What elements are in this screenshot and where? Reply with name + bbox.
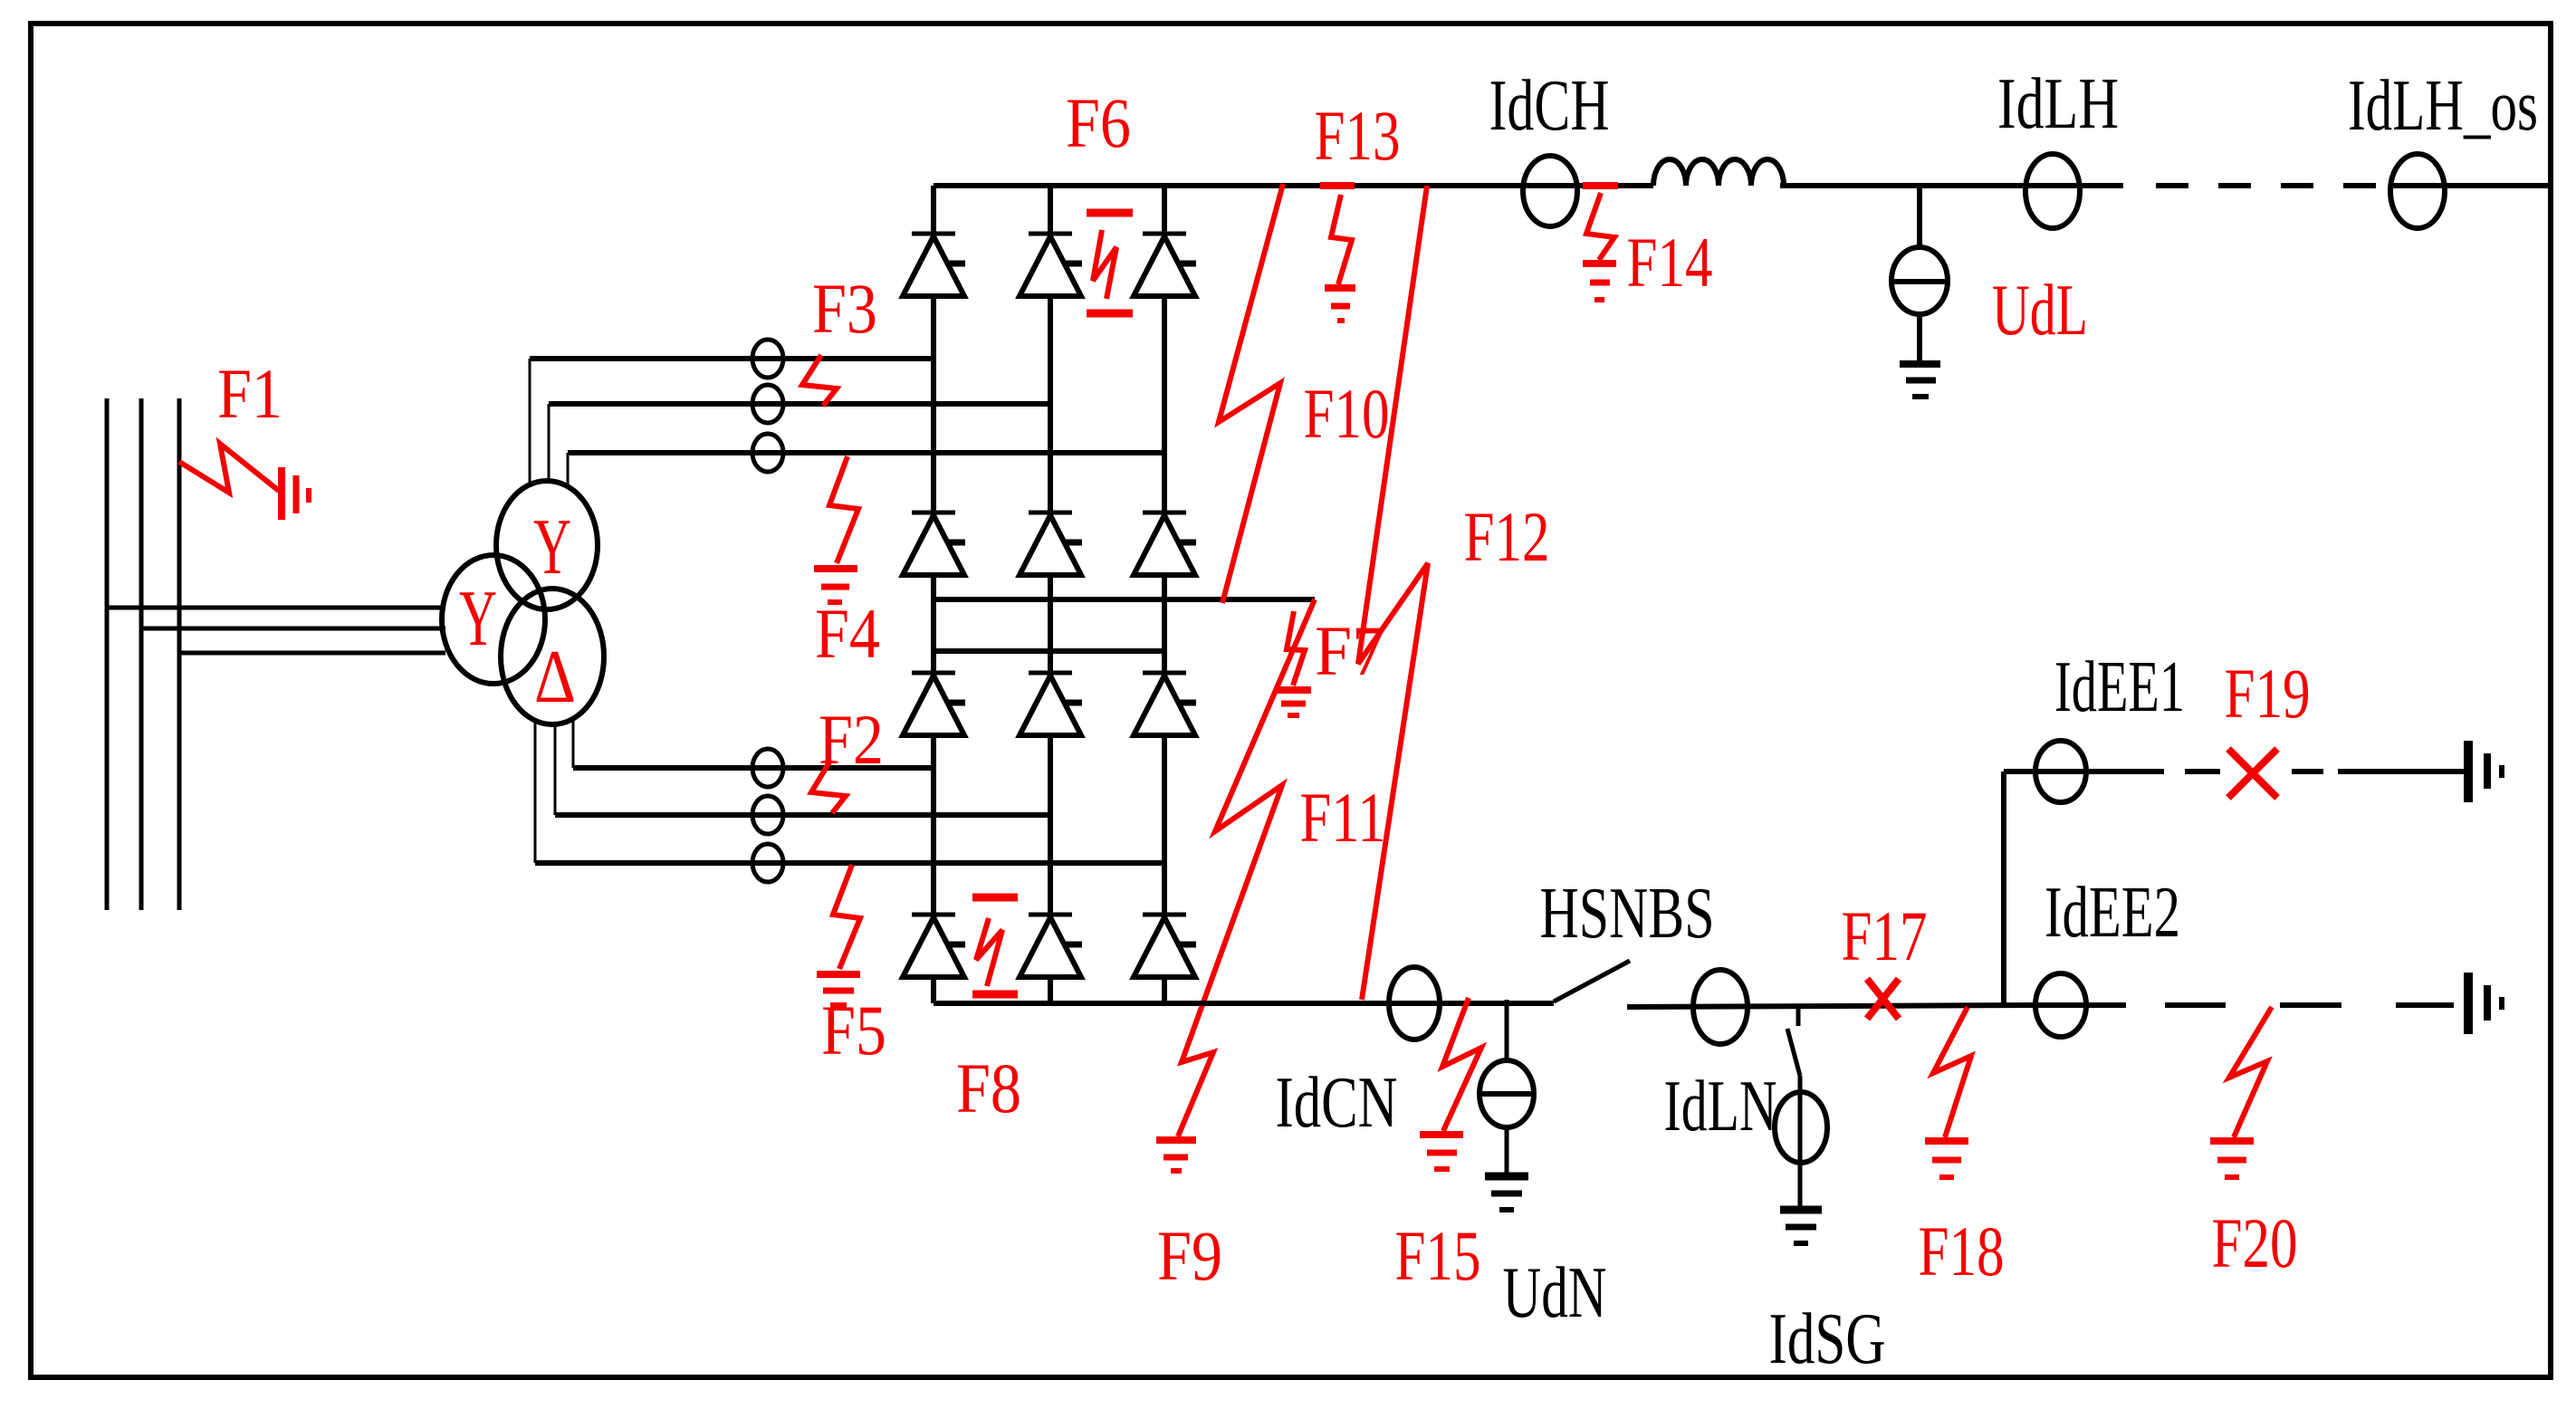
smoothing reactor inductor [1653,159,1784,186]
CT IdCH on DC bus [1523,156,1577,226]
svg-text:Y: Y [533,503,571,591]
CT IdSG [1775,1092,1827,1163]
valve V9 lower bridge col3 top [1134,673,1196,735]
svg-text:IdLN: IdLN [1664,1067,1777,1146]
valve V11 lower bridge col2 bottom [1020,915,1082,977]
top DC bus right of reactor [1780,183,2123,188]
fault F14 ground [1583,264,1616,300]
fault F13 red mark on bus [1320,182,1355,189]
valve V8 lower bridge col2 top [1020,673,1082,735]
fault F13 ground [1325,288,1355,321]
svg-text:F17: F17 [1842,896,1928,975]
electrode line 1 end wire [2338,769,2466,774]
wire bus to transformer phase c [179,651,445,656]
svg-text:F11: F11 [1300,778,1386,857]
fault F4 lightning bolt [829,456,858,563]
fault F17 red X [1867,979,1899,1019]
svg-text:F15: F15 [1395,1216,1481,1295]
fault F6 valve short top bar [1087,209,1133,217]
CT IdLN [1693,970,1748,1044]
fault F10 lightning bolt upper valve group [1219,184,1283,603]
transformer secondary winding Y (top circle) [496,481,598,609]
valve V4 upper bridge col1 bottom [903,513,965,575]
Y bridge phase wire 3 [568,450,1164,455]
fault F5 lightning bolt [833,865,860,969]
CT IdCN on neutral bus [1389,967,1440,1040]
svg-text:F18: F18 [1919,1212,2005,1290]
Y winding lead a [529,359,531,484]
fault F19 red X [2228,749,2277,798]
valve V5 upper bridge col2 bottom [1020,513,1082,575]
svg-text:F13: F13 [1315,96,1401,175]
UdN lower wire [1505,1127,1509,1174]
DC line IdLH_os to border [2390,183,2548,188]
delta bridge phase wire 3 [535,860,1164,866]
electrode 2 earth symbol [2468,973,2502,1034]
UdL ground [1900,364,1940,397]
CT IdLH on DC bus [2025,154,2080,228]
electrode line 1 dash b [2292,769,2323,774]
CT on delta phase wire 1 [752,749,783,787]
upper bridge DC mid bus [934,597,1315,602]
Y winding lead b [548,404,551,481]
svg-text:F2: F2 [819,700,884,779]
switch HSNBS blade [1554,961,1630,1002]
UdN ground [1485,1176,1528,1210]
svg-text:IdEE1: IdEE1 [2054,647,2185,727]
svg-text:F8: F8 [956,1049,1021,1127]
top DC bus left of reactor [934,183,1653,188]
CT IdLH_os on DC bus [2390,154,2445,228]
IdSG branch wire [1798,1076,1803,1208]
svg-text:UdN: UdN [1503,1253,1607,1333]
fault F9 ground [1156,1140,1196,1171]
fault F20 lightning bolt [2229,1007,2272,1137]
electrode line 2 dash a [2165,1002,2226,1008]
transformer secondary winding Delta (bottom circle) [501,589,604,724]
svg-text:F12: F12 [1464,497,1550,576]
transformer primary winding Y (left circle) [442,555,545,684]
CT on Y phase wire 3 [752,434,783,472]
svg-text:F3: F3 [812,269,877,348]
svg-text:F6: F6 [1066,83,1131,162]
fault F7 ground [1277,690,1311,715]
Y winding lead c [567,453,570,486]
fault F6 bottom bar [1087,310,1133,318]
fault F7 lightning bolt [1287,611,1305,685]
electrode line 2 dash b [2280,1002,2341,1008]
voltage divider UdN [1480,1060,1534,1127]
fault F11 lightning bolt lower valve group and F9 path to ground [1178,599,1315,1136]
fault F8 valve short top bar [972,894,1018,902]
fault F18 ground [1925,1141,1968,1177]
UdN branch wire [1505,1000,1509,1060]
valve V2 upper bridge col2 top [1020,234,1082,296]
bridge column 3 [1162,186,1167,1003]
fault F8 bottom bar [972,991,1018,999]
neutral DC bus [934,1001,1554,1006]
delta winding lead a [572,719,575,768]
svg-text:IdCN: IdCN [1276,1063,1398,1143]
svg-text:Δ: Δ [534,635,576,719]
fault F18 lightning bolt [1933,1007,1971,1137]
lower bridge top bus [934,648,1164,654]
electrode line 2 dash c [2396,1002,2454,1008]
UdL branch wire [1917,186,1922,248]
fault F6 lightning bolt [1093,230,1116,299]
fault F1 lightning bolt on AC bus [179,444,279,493]
fault F4 ground [814,569,857,602]
delta winding lead b [554,724,557,815]
fault F2 lightning bolt [811,761,846,813]
fault F12 lightning bolt both valve groups [1358,186,1428,1000]
CT on Y phase wire 1 [752,340,783,378]
neutral bus right of switch [1627,1005,2034,1007]
dashed DC line IdLH to IdLH_os [2156,183,2381,188]
wire bus to transformer phase a [107,606,445,610]
svg-text:F9: F9 [1157,1216,1222,1295]
fault F13 lightning bolt [1331,195,1352,284]
fault F14 red mark on bus [1583,182,1618,189]
svg-text:F20: F20 [2212,1203,2298,1282]
valve V7 lower bridge col1 top [903,673,965,735]
svg-text:IdLH: IdLH [1997,64,2119,144]
electrode 1 earth symbol [2468,741,2502,802]
CT on delta phase wire 3 [752,844,783,882]
delta winding lead c [534,721,537,863]
fault F14 lightning bolt [1586,193,1614,260]
CT on delta phase wire 2 [752,796,783,834]
UdL lower wire [1917,314,1922,363]
svg-text:IdCH: IdCH [1489,66,1610,146]
CT IdEE1 [2035,741,2086,802]
IdSG branch tick [1796,1005,1801,1026]
delta bridge phase wire 2 [555,812,1050,818]
IdSG ground [1780,1210,1822,1243]
svg-text:F1: F1 [217,354,282,433]
electrode line 1 dash a [2185,769,2220,774]
svg-text:F19: F19 [2225,654,2311,733]
voltage divider UdL [1891,247,1948,314]
IdSG disconnector blade [1787,1029,1800,1076]
svg-text:IdSG: IdSG [1769,1299,1886,1379]
svg-text:F10: F10 [1304,374,1390,453]
fault F8 lightning bolt [976,918,1002,986]
fault F5 ground [817,974,860,1005]
svg-text:UdL: UdL [1992,271,2088,350]
svg-text:HSNBS: HSNBS [1540,874,1715,954]
electrode line 1 wire [2004,769,2164,774]
fault F1 arc gap bars [282,467,309,520]
fault F15 lightning bolt [1442,998,1481,1131]
AC bus phase line 2 [139,398,144,910]
fault F15 ground [1420,1135,1463,1169]
CT IdEE2 [2035,973,2086,1037]
valve V3 upper bridge col3 top [1134,234,1196,296]
valve V10 lower bridge col1 bottom [903,915,965,977]
svg-text:IdEE2: IdEE2 [2045,873,2180,953]
AC bus phase line 3 [177,398,182,910]
svg-text:F5: F5 [821,991,886,1069]
wire bus to transformer phase b [141,627,445,631]
AC bus phase line 1 [105,398,110,910]
Y bridge phase wire 1 [530,356,934,361]
valve V6 upper bridge col3 bottom [1134,513,1196,575]
electrode line riser [2001,772,2006,1005]
bridge column 1 [931,186,936,1003]
svg-text:F7: F7 [1315,611,1385,690]
valve V12 lower bridge col3 bottom [1134,915,1196,977]
svg-text:Y: Y [459,575,497,663]
fault F3 lightning bolt [802,355,837,406]
svg-text:F4: F4 [815,594,880,673]
svg-text:F14: F14 [1627,223,1713,302]
valve V1 upper bridge col1 top [903,234,965,296]
CT on Y phase wire 2 [752,385,783,423]
electrode line 2 wire [2034,1002,2126,1008]
fault F20 ground [2210,1141,2254,1177]
bridge column 2 [1048,186,1053,1003]
svg-text:IdLH_os: IdLH_os [2348,66,2538,146]
delta bridge phase wire 1 [573,765,934,771]
Y bridge phase wire 2 [549,401,1050,407]
